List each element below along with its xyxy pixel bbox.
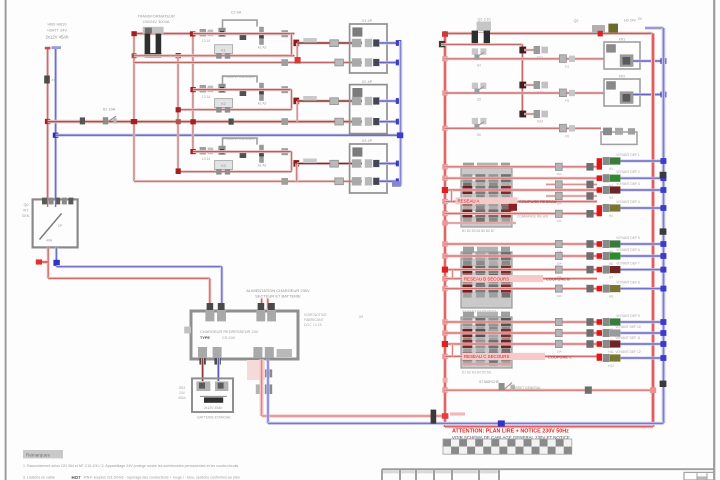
wire red unit to battery (201, 358, 204, 381)
relay contact K3 (258, 145, 267, 168)
wire relay column feed (441, 43, 522, 46)
relay KR2 cell (606, 81, 616, 89)
wire blue meter output (53, 247, 59, 266)
aux contact K11 (240, 33, 247, 40)
wire blue return lamp 9 (621, 321, 664, 324)
junction top feeder / drop x193 (190, 31, 196, 36)
wire top red feeder right (443, 32, 653, 35)
relay KR1 coil (620, 54, 634, 66)
junction centre bus row 5 (442, 90, 448, 95)
lamp H2 (603, 174, 621, 188)
svg-text:H4: H4 (609, 214, 613, 218)
junction lamp 7 node (597, 267, 602, 273)
junction blue bus lamp 5 (660, 241, 666, 247)
svg-text:S4: S4 (477, 63, 481, 67)
junction relay 2 output (293, 98, 299, 105)
junction blue bus lamp 11 (660, 341, 666, 347)
svg-text:CS-240: CS-240 (222, 336, 235, 340)
wire red into meter (47, 199, 49, 207)
svg-text:RESEAU B SECOURS: RESEAU B SECOURS (464, 276, 509, 281)
junction blue bus lamp 9 (660, 319, 666, 325)
svg-text:K3: K3 (221, 164, 225, 168)
switch S6r (472, 118, 487, 137)
control unit right text (304, 313, 327, 327)
wire right blue bus top elbow (638, 17, 664, 28)
junction blue bus X3a (396, 161, 402, 167)
junction relay column tap 1 (519, 47, 526, 54)
junction bright A3 (442, 187, 448, 193)
fuse pair C2 (555, 329, 562, 336)
junction top feeder / left drop (131, 31, 136, 36)
svg-text:10A: 10A (556, 172, 561, 176)
bypass bridge block 1 (223, 20, 258, 29)
svg-text:10A: 10A (556, 201, 561, 205)
fuse relay 1 out2 (335, 59, 344, 66)
fuse relay 2 out1 (330, 98, 339, 105)
title block scale cells (382, 469, 499, 480)
fuse pair B2 (555, 252, 562, 259)
wire red meter output (36, 247, 48, 278)
wire relay 2 loop top (193, 88, 292, 91)
switch S7 main (479, 380, 541, 391)
contact block CB2 (461, 247, 512, 308)
svg-text:DOC 10-25: DOC 10-25 (304, 323, 322, 327)
svg-text:0V: 0V (638, 17, 643, 21)
contact S3a (200, 147, 214, 161)
page frame right border (713, 0, 715, 480)
junction drop x193 / main bus (190, 119, 195, 124)
relay KR1 loop (604, 42, 640, 69)
wire feed row B4 (445, 277, 597, 280)
svg-text:X1 4P: X1 4P (362, 18, 373, 23)
switch S5r (472, 83, 487, 102)
contact S1b (218, 28, 225, 37)
svg-text:230/24V 300VA: 230/24V 300VA (143, 19, 170, 24)
battery GB1 body (192, 378, 233, 412)
junction blue bus lamp 3 (660, 187, 666, 193)
wire feed row A1 (445, 165, 597, 168)
wire blue return lamp 3 (621, 189, 664, 192)
svg-text:VOYANT DEF 8: VOYANT DEF 8 (616, 281, 640, 285)
svg-text:A1 A2: A1 A2 (258, 164, 267, 168)
junction blue bus lamp 2 (660, 175, 666, 181)
wire feed jog A2 (546, 195, 597, 197)
junction lamp 12 node (597, 354, 602, 361)
lamp H11 (603, 340, 621, 354)
junction bright B3 (442, 267, 448, 273)
fuse pair A4 (555, 210, 562, 217)
svg-text:VOIR NOTICE: VOIR NOTICE (304, 313, 327, 317)
svg-text:H8: H8 (609, 294, 613, 298)
svg-text:F6: F6 (565, 134, 569, 138)
aux contact K21 (240, 89, 247, 96)
junction relay 1 output (293, 40, 299, 47)
svg-text:S5: S5 (477, 98, 481, 102)
junction lamp 6 node (597, 253, 602, 259)
svg-text:K1: K1 (221, 48, 225, 52)
fuse pair B1 (555, 240, 562, 247)
svg-text:45Ah: 45Ah (178, 396, 186, 400)
wire relay 1 loop bottom (134, 54, 292, 57)
junction blue bus lamp 6 (660, 253, 666, 259)
svg-text:TYPE: TYPE (200, 336, 210, 340)
wire blue return lamp 6 (621, 255, 664, 258)
junction blue bus lamp 7 (660, 267, 666, 273)
svg-text:COUPURE C: COUPURE C (548, 354, 572, 359)
terminal 2t (281, 86, 288, 93)
junction lamp 5 node (597, 241, 602, 247)
contact block CB1 (461, 163, 512, 227)
breaker Q1 (472, 22, 491, 44)
junction bottom row / right bus (650, 387, 656, 393)
junction blue bus KR1 (660, 58, 666, 64)
label relay 1 out1 (303, 38, 317, 43)
svg-text:S7 MARCHE: S7 MARCHE (479, 380, 500, 384)
wire feed row C2 (445, 332, 597, 335)
relay contact K2 (258, 83, 267, 106)
wire drop vertical x193 (192, 34, 195, 152)
connector X1 pins row b (352, 58, 380, 66)
svg-text:VOYANT DEF 11: VOYANT DEF 11 (615, 336, 640, 340)
wire blue out X3a (379, 162, 399, 165)
terminal 3t (281, 148, 288, 155)
svg-text:1. Raccordement selon CEI 364: 1. Raccordement selon CEI 364 et NF C15-… (23, 464, 239, 468)
svg-text:13 14: 13 14 (202, 157, 210, 161)
svg-text:VOYANT DEF 7: VOYANT DEF 7 (616, 262, 640, 266)
connector X1 pins row a (352, 39, 380, 47)
fuse pair A1 (555, 163, 562, 170)
wire switch row 4 (445, 57, 604, 60)
relay coil K3 box (215, 161, 233, 175)
svg-text:ARRET GENERAL: ARRET GENERAL (513, 386, 541, 390)
wire relay 2 loop bottom (178, 108, 292, 111)
wire red pair from label (262, 299, 268, 310)
junction blue bus X2b (396, 119, 402, 125)
fuse F1 on battery feed (44, 76, 50, 84)
junction blue bus X3b (396, 178, 402, 184)
label relay 2 out1 (303, 96, 317, 101)
wire feed row B2 (445, 255, 597, 258)
highlight label L2 (462, 275, 543, 282)
fuse row 4a (559, 55, 575, 69)
wire long line y181 lower return (134, 180, 362, 183)
svg-text:F5: F5 (565, 99, 569, 103)
inline connector on main bus (229, 119, 234, 125)
lamp H10 (603, 329, 621, 343)
junction red rail corner (442, 413, 449, 419)
svg-text:D1 D2 D3 D4 D5 D6: D1 D2 D3 D4 D5 D6 (462, 371, 491, 375)
stray red mark (450, 412, 465, 415)
lamp H5 (603, 240, 621, 254)
svg-text:C2 6A: C2 6A (231, 11, 242, 15)
junction centre bus spare (443, 378, 448, 383)
svg-text:VOYANT DEF 9: VOYANT DEF 9 (616, 314, 640, 318)
fuse pair B4 (555, 285, 562, 292)
svg-text:2x12V 45Ah: 2x12V 45Ah (46, 35, 69, 40)
lamp H6 (603, 252, 621, 266)
title block top line (382, 468, 714, 470)
wire left drop vertical x134 (133, 34, 136, 181)
junction blue bus KR2 (660, 92, 666, 98)
lamp H12 (603, 354, 621, 368)
control unit text (200, 329, 259, 340)
wire coil tap 3 (524, 113, 534, 115)
wire blue return lamp 12 (621, 357, 664, 360)
switch S4r (472, 48, 487, 67)
contact S2b (218, 84, 225, 93)
meter Q0 labels left (22, 203, 30, 218)
fuse relay 3 out2 (335, 178, 344, 185)
wire bottom row (445, 389, 653, 392)
svg-text:Remarques: Remarques (26, 453, 50, 458)
fuse relay 1 out1 (330, 40, 339, 47)
svg-text:13 14: 13 14 (202, 95, 210, 99)
svg-text:H3: H3 (609, 196, 613, 200)
svg-text:INT.: INT. (23, 209, 29, 213)
svg-text:10A: 10A (556, 219, 561, 223)
lamp H3 (603, 186, 621, 200)
pilot component olive (592, 19, 637, 34)
bus tap dark B (660, 228, 667, 234)
wire blue drop to bottom rail (268, 359, 664, 423)
wire feed row B5 (445, 287, 597, 290)
svg-text:CHARGEUR REDRESSEUR 24V: CHARGEUR REDRESSEUR 24V (200, 329, 259, 334)
connector X3 body (350, 144, 387, 193)
junction blue bus X1a (396, 40, 402, 46)
lamp H8 (603, 285, 621, 299)
wire feed row A2 (445, 177, 597, 180)
wire feed row C3 (445, 343, 597, 346)
remarks line 2 (23, 475, 240, 480)
svg-text:F1: F1 (52, 79, 56, 83)
wire feed row A4 (445, 200, 597, 203)
wire blue unit to battery (217, 358, 220, 381)
wire relay 1 out stub (296, 43, 298, 63)
wire relay 3 out stub (296, 164, 298, 182)
lamp H9 (603, 318, 621, 332)
wire blue return lamp 5 (621, 243, 664, 246)
fuse bottom row (585, 386, 592, 393)
connector X1 body (350, 24, 387, 73)
meter Q0 top pins (42, 198, 73, 205)
wire relay 2 out stub (296, 101, 298, 122)
junction mid drop / relay3 bottom (176, 168, 181, 174)
svg-text:Q1 C10: Q1 C10 (477, 18, 490, 22)
switch S1 on main red bus (103, 108, 117, 125)
highlight label L1 (456, 197, 518, 204)
svg-text:RN-F souples 2x1.5mm2 - repera: RN-F souples 2x1.5mm2 - reperage des con… (84, 476, 240, 480)
fuse pair B3 (555, 266, 562, 273)
relay contact K1 (258, 27, 267, 50)
junction blue rail mid (498, 420, 505, 426)
wire right blue bus (662, 28, 666, 423)
junction relay 3 output (293, 160, 299, 167)
relay coil KA2 (534, 81, 548, 95)
relay coil K1 box (215, 45, 233, 59)
connector X2 cell (352, 88, 362, 97)
junction battery feed / main red bus (45, 119, 50, 124)
lamp H4 (603, 204, 621, 218)
svg-text:KA3: KA3 (537, 120, 543, 124)
svg-text:VOYANT DEF 2: VOYANT DEF 2 (616, 170, 640, 174)
wire feed row C1 (445, 321, 597, 324)
svg-text:H0 24V: H0 24V (624, 19, 637, 23)
svg-text:VOYANT DEF 3: VOYANT DEF 3 (616, 182, 640, 186)
junction relay 1 out2 (295, 57, 301, 63)
fuse pair A3 (555, 192, 562, 199)
fuse pair C3 (555, 340, 562, 347)
junction centre bus feed A4 (442, 199, 448, 204)
control unit pins top right (256, 303, 276, 321)
svg-text:2P: 2P (58, 224, 63, 228)
wire jog stub C (451, 344, 453, 356)
junction lamp 2 node (597, 175, 602, 181)
junction centre bus feed A2 (442, 176, 448, 181)
battery GB1 text left (178, 386, 186, 400)
junction centre bus feed B5 (442, 286, 448, 291)
svg-text:RESEAU C SECOURS: RESEAU C SECOURS (464, 354, 509, 359)
wire red bottom rail right (445, 425, 653, 428)
junction blue bus lamp 8 (660, 286, 666, 292)
wire relay 3 output 1 (297, 162, 362, 165)
connector X3 pins row a (352, 159, 380, 167)
relay KR2 loop (604, 79, 640, 106)
svg-text:13 14: 13 14 (202, 39, 210, 43)
svg-text:COUPURE RESEAU: COUPURE RESEAU (519, 199, 557, 204)
fuse pair C1 (555, 318, 562, 325)
svg-text:TRANSFORMATEUR: TRANSFORMATEUR (137, 14, 175, 19)
svg-text:+BATT 24V: +BATT 24V (47, 28, 68, 33)
svg-text:VOYANT DEF 6: VOYANT DEF 6 (616, 248, 640, 252)
aux contact K31 (240, 151, 247, 158)
junction feeder / pilot (598, 31, 603, 37)
svg-text:KR1: KR1 (619, 37, 626, 41)
junction centre bus feed C4 (442, 354, 448, 359)
highlight label L3 (462, 353, 545, 360)
control unit pins bottom right (253, 347, 273, 358)
battery label G1 text (46, 22, 69, 40)
page frame left border (5, 0, 7, 480)
wire blue return lamp 2 (621, 177, 664, 180)
svg-text:2x12V 45Ah: 2x12V 45Ah (204, 406, 223, 410)
junction centre bus feed A1 (442, 164, 448, 169)
svg-text:24V: 24V (179, 391, 186, 395)
wire blue out KR1 (633, 60, 664, 63)
junction centre bus bottom row (442, 387, 448, 392)
junction centre bus feed C2 (442, 330, 448, 335)
wire secondary line y56 (132, 54, 295, 57)
wire coil tap 1 (524, 49, 534, 51)
wire relay 2 loop right (290, 90, 293, 110)
wire relay 1 output 1 (297, 42, 362, 45)
junction lamp 3 node (597, 187, 602, 193)
svg-text:FABRICANT: FABRICANT (304, 318, 325, 322)
junction bright C3 (442, 341, 448, 347)
wire blue out X1a (379, 42, 399, 45)
wire long line y62 (134, 61, 362, 64)
junction blue bus / main blue (397, 132, 403, 138)
svg-text:3. Liaisons en cable: 3. Liaisons en cable (23, 476, 55, 480)
svg-text:COMMANDE RELAIS: COMMANDE RELAIS (517, 215, 548, 219)
control unit A1 body (191, 311, 298, 359)
junction mid drop / relay2 bottom (176, 107, 181, 112)
wire main red distribution bus (48, 120, 362, 124)
transformer T1 label (137, 14, 175, 25)
remarks label (23, 450, 63, 458)
svg-text:H11: H11 (608, 350, 614, 354)
svg-text:GB1: GB1 (179, 386, 186, 390)
wire blue into meter (55, 199, 57, 207)
junction left drop / main red bus (131, 119, 137, 124)
transformer T1 bottom core (145, 53, 162, 57)
junction centre bus feed A5 (442, 211, 448, 216)
control unit tab (277, 349, 292, 357)
svg-text:HO7: HO7 (72, 475, 82, 480)
wire blue return lamp 4 (621, 207, 664, 210)
junction relay column tap 2 (519, 82, 526, 89)
fuse row 6a (559, 124, 575, 138)
svg-text:ALIMENTATION CHARGEUR 230V: ALIMENTATION CHARGEUR 230V (246, 288, 310, 293)
svg-text:10A: 10A (556, 349, 561, 353)
blue bus bottom terminal (392, 181, 401, 187)
fuse F2 on main red bus (80, 117, 85, 124)
wire feed row B3 (445, 268, 597, 271)
svg-text:A1 A2: A1 A2 (258, 102, 267, 106)
svg-text:SECTEUR ET BATTERIE: SECTEUR ET BATTERIE (255, 294, 301, 299)
battery GB1 pins (196, 381, 228, 391)
svg-text:X9: X9 (359, 315, 363, 319)
title block right box (684, 472, 714, 480)
wire lower return rise (295, 164, 298, 182)
svg-text:H7: H7 (609, 275, 613, 279)
junction top feeder / centre bus (442, 31, 448, 36)
marker block CB1 (509, 204, 517, 211)
junction drop x193 / relay3 top (190, 149, 195, 154)
fuse row 5a (559, 89, 575, 103)
svg-text:A1 A2: A1 A2 (258, 46, 267, 50)
svg-text:H1: H1 (609, 167, 613, 171)
wire feed jog A1 (546, 183, 597, 185)
junction blue bus X1b (396, 60, 402, 66)
junction blue bus lamp 4 (660, 205, 666, 211)
svg-text:VOYANT DEF 12: VOYANT DEF 12 (615, 350, 641, 354)
wire blue out X1b (379, 61, 399, 64)
meter Q0 switch blade (40, 214, 62, 240)
wire feed row C4 (445, 355, 597, 358)
junction secondary / mid drop x178 (176, 53, 181, 58)
junction centre bus row 4 (442, 56, 448, 61)
wire relay 3 loop bottom (178, 170, 292, 173)
wire relay 3 loop right (290, 152, 293, 172)
terminal on line y181 (281, 178, 288, 185)
terminal 1t (281, 30, 288, 37)
junction centre bus feed B2 (442, 253, 448, 258)
junction blue bus lamp 12 (660, 355, 666, 361)
svg-text:40A: 40A (46, 239, 53, 243)
junction lamp 11 node (597, 341, 602, 347)
svg-text:VOYANT DEF 1: VOYANT DEF 1 (616, 153, 640, 157)
wire relay 1 loop right (290, 34, 293, 56)
svg-text:H6: H6 (609, 262, 613, 266)
contact block CB3 (461, 312, 512, 368)
wire blue battery return vertical (52, 46, 62, 199)
svg-text:Q2: Q2 (574, 19, 579, 23)
junction relay column tap 3 (519, 111, 526, 118)
relay coil K2 box (215, 99, 233, 113)
connector X3 pins row b (352, 177, 380, 185)
wire switch row 6 (445, 127, 601, 130)
wire mid drop vertical x178 (177, 56, 180, 171)
